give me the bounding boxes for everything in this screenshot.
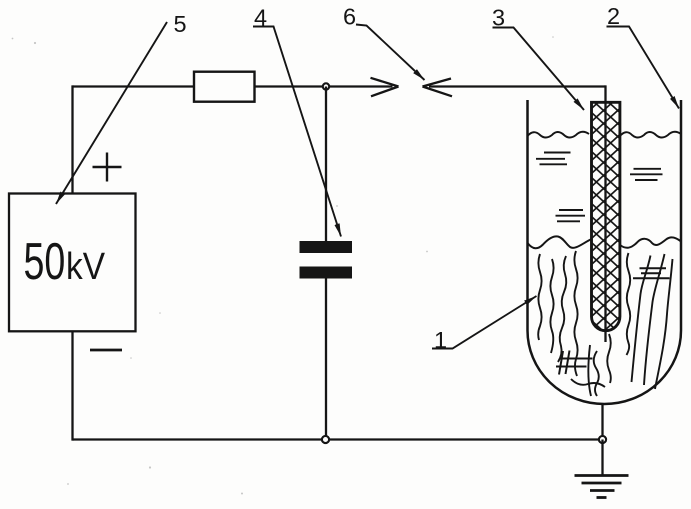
wire left vertical (top wire down to source +)	[71, 85, 73, 193]
plus terminal mark	[93, 153, 122, 182]
wire left vertical (source - down to bottom rail)	[71, 331, 73, 440]
voltage source U1 box	[9, 194, 136, 332]
vessel 2 left wall	[526, 100, 529, 331]
label 4 leader line	[253, 27, 341, 237]
label 6 leader line	[356, 25, 425, 81]
node C (junction at bottom right)	[599, 436, 606, 443]
liquid level marks group B (upper right)	[630, 169, 663, 180]
svg-text:kV: kV	[66, 245, 105, 287]
agitated zone boundary wave left	[528, 236, 592, 248]
fountain bars	[633, 268, 670, 278]
discharge stream squiggle 1 (label 1 target)	[538, 254, 541, 340]
svg-text:50: 50	[24, 232, 66, 290]
wire vessel bottom to node C	[601, 404, 603, 440]
discharge stream squiggle 4	[574, 251, 577, 376]
wire node A to spark gap	[326, 85, 393, 87]
centre-left gentle curve	[588, 345, 591, 396]
wire node C to ground	[601, 440, 603, 476]
liquid surface wavy line left of electrode	[528, 132, 590, 138]
capacitor C top wire	[325, 87, 327, 242]
wire / electrode centre rod (down into vessel)	[604, 85, 606, 342]
fountain curve 3	[655, 259, 673, 389]
fountain curve 2	[644, 254, 665, 385]
agitated zone boundary wave right	[620, 237, 681, 247]
fountain curve 1	[632, 256, 651, 383]
scan speckles	[12, 36, 554, 494]
liquid surface wavy line right of electrode	[620, 132, 681, 138]
centre-low S squiggle	[594, 351, 599, 396]
capacitor C top plate	[300, 241, 353, 253]
wire resistor to node A	[255, 85, 327, 87]
discharge stream squiggle 2	[550, 259, 553, 353]
wire spark gap to electrode top	[429, 85, 606, 87]
node A (top junction)	[323, 83, 329, 89]
discharge stream squiggle 3	[558, 256, 566, 362]
node B (bottom junction under capacitor)	[322, 436, 329, 443]
resistor R1	[194, 72, 255, 102]
minus terminal mark	[90, 349, 122, 352]
svg-text:2: 2	[607, 3, 620, 29]
wire top-left horizontal (source to resistor)	[73, 85, 195, 87]
vessel 2 rounded bottom	[528, 331, 682, 405]
centre squiggle below electrode	[607, 334, 611, 383]
capacitor C bottom plate	[300, 267, 353, 279]
label 2 leader line	[607, 27, 680, 109]
svg-text:5: 5	[173, 11, 186, 37]
liquid level marks group C (mid left)	[556, 210, 586, 221]
capacitor C bottom wire	[325, 279, 327, 440]
spark gap 6 right electrode arrow	[423, 79, 453, 97]
liquid level marks group A (upper left)	[536, 153, 571, 165]
electrode 3 crosshatched tube	[592, 102, 620, 330]
bottom wavy squiggle	[571, 379, 605, 387]
svg-text:6: 6	[343, 4, 356, 30]
label 5 leader line	[56, 22, 167, 204]
wire bottom rail	[73, 438, 603, 440]
label 1 leader line	[432, 296, 537, 349]
label 3 leader line	[493, 28, 585, 111]
sediment mark (left, two bars with ticks)	[556, 351, 593, 375]
vessel 2 right wall	[680, 100, 683, 331]
spark gap 6 left electrode arrow	[371, 78, 399, 97]
ground symbol	[575, 476, 629, 498]
right stream squiggle	[627, 253, 631, 355]
